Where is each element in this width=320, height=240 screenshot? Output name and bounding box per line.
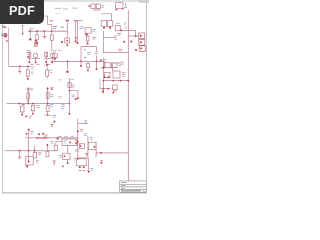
inductor L1 [1, 33, 9, 37]
label text [117, 33, 122, 35]
wire GND rail left [9, 66, 31, 68]
wire x88 drop [88, 158, 94, 173]
resistor R9 [31, 103, 40, 115]
sheet frame top border [44, 0, 149, 2]
transistor Q6 cell [61, 91, 75, 115]
ground [18, 151, 21, 159]
node dots rail [29, 30, 52, 32]
wire loop mid [81, 47, 98, 62]
label text [53, 27, 64, 29]
capacitor C4 [34, 40, 37, 47]
wire [56, 14, 112, 21]
wire net6 vertical x78 [77, 119, 79, 160]
connector P1 [2, 26, 7, 27]
wire stub [99, 79, 101, 91]
resistor R15 [96, 61, 98, 70]
ground [66, 61, 68, 73]
capacitor C3 [115, 23, 120, 31]
wire y158 [78, 153, 88, 158]
connector P2 box [26, 156, 39, 165]
diode D1 [74, 21, 78, 39]
label text [30, 131, 34, 133]
IC U1 [85, 28, 96, 36]
wire branch y123 [78, 121, 89, 124]
wire GND row [100, 88, 111, 90]
label marks x25 y115 [25, 115, 32, 118]
wire long vertical net3 [127, 10, 129, 181]
label text x79 y129 [80, 129, 87, 135]
node dot right [102, 90, 104, 92]
wire rail y141 [54, 138, 62, 151]
wire loop top [103, 49, 128, 52]
IC U5 box [88, 136, 96, 158]
wire top right cell [69, 90, 78, 100]
IC U4 wide box [62, 139, 78, 145]
title block [120, 181, 147, 192]
transistor Q5 cell upper [46, 87, 53, 104]
connector J5 [139, 46, 145, 52]
sheet frame bottom border [2, 192, 147, 194]
node VCC label top [55, 7, 78, 10]
ground marks bottom-left [25, 165, 28, 167]
resistor R7 [103, 72, 110, 78]
IC U2 block [100, 60, 117, 68]
label text [124, 23, 127, 28]
ground marks under Q7 [53, 161, 64, 167]
transistor Q7 cell [59, 145, 70, 164]
wire rail y138 [26, 137, 79, 139]
wire VBUS rail [28, 30, 67, 32]
transformer T1 box [113, 62, 126, 78]
wire rail y103 [7, 103, 71, 105]
transistor Q1 collector wire [66, 20, 70, 33]
connector J1 [89, 4, 105, 10]
resistor R12 [33, 152, 41, 158]
label text [87, 52, 91, 54]
wire long bottom to net3 [96, 152, 128, 154]
wire rail y150 [5, 150, 58, 152]
resistor R2 [45, 16, 54, 52]
label text [80, 27, 85, 29]
ground [18, 66, 21, 73]
resistor R10 [44, 104, 53, 116]
label text above rail2 [58, 135, 73, 138]
regulator U3 cell [59, 78, 75, 98]
node marks above rail2 [26, 133, 48, 137]
capacitor C6 [112, 85, 117, 94]
power flag +V2 [6, 28, 9, 67]
ground [43, 31, 46, 38]
power flag +V1 [74, 21, 83, 45]
transistor Q2 cell [28, 52, 40, 65]
sheet frame left border [2, 5, 4, 193]
resistor R3 [65, 33, 70, 46]
title block text [121, 183, 145, 193]
connector J4 [139, 40, 145, 46]
resistor R11 [28, 151, 30, 163]
wire net2 [103, 31, 117, 53]
capacitor C8 [46, 142, 54, 157]
power flag marks [123, 41, 137, 52]
wire mid rail [51, 61, 106, 63]
label text [26, 51, 30, 58]
resistor R1 [36, 31, 39, 44]
ground marks row [27, 88, 54, 91]
wire net5 vertical [103, 58, 105, 94]
adjacent page corner top-right [139, 0, 149, 3]
resistor R14 [87, 61, 90, 71]
resistor R5 [26, 66, 34, 79]
power flag +V3 [84, 50, 86, 58]
resistor R8 [20, 104, 24, 115]
label text [58, 50, 62, 52]
connector J2 [116, 3, 128, 11]
capacitor C7 [51, 115, 56, 126]
capacitor C5 [52, 51, 57, 62]
capacitor C9 [75, 144, 85, 151]
wire to connector [128, 30, 138, 36]
wire bottom of block [104, 80, 130, 82]
wire between rails [29, 138, 35, 151]
resistor R4 [86, 33, 96, 44]
relay K1 contacts [101, 21, 112, 29]
transistor Q3 cell [44, 52, 56, 65]
power flag +V4 [77, 91, 79, 100]
resistor R13 [80, 61, 82, 67]
capacitor C1 [22, 25, 25, 35]
node dot right lower [100, 160, 102, 163]
capacitor C2 [29, 28, 34, 41]
connector J3 [139, 33, 145, 39]
PDF badge overlay [0, 0, 44, 24]
power flag +V5 [28, 129, 30, 138]
power dots mid [61, 40, 77, 43]
transistor Q4 cell upper [27, 87, 33, 104]
connector P3 bottom cell [73, 158, 86, 170]
wire net1 [120, 30, 128, 32]
resistor R6 [44, 64, 52, 79]
sheet frame right border [146, 0, 148, 193]
wire net4 [104, 61, 106, 67]
diode D3 pair [75, 141, 77, 145]
